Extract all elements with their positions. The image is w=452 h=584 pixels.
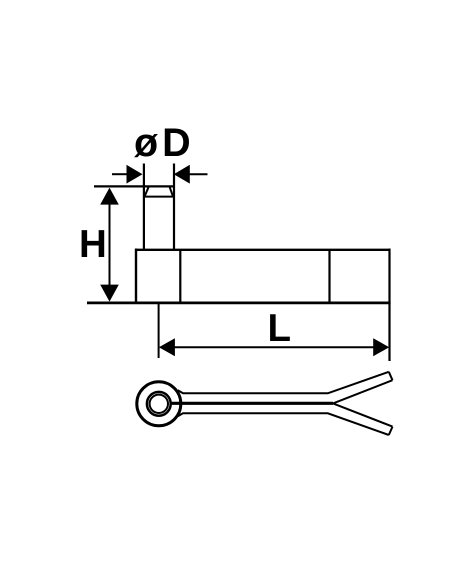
- cotter pin bottom leg lower edge: [178, 413, 389, 435]
- cotter pin top leg tip edge: [389, 372, 393, 380]
- body internal line left: [179, 250, 181, 303]
- pin chamfer bottom line: [143, 196, 175, 198]
- body internal line right: [328, 250, 330, 303]
- cotter pin eye outer circle: [137, 382, 181, 426]
- pin chamfer right diagonal: [170, 187, 173, 196]
- L left extension line: [158, 304, 160, 358]
- svg-text:øD: øD: [134, 121, 195, 165]
- pin chamfer left diagonal: [145, 187, 149, 196]
- cotter pin top leg upper edge: [178, 372, 389, 394]
- body right edge extended down as L extension line: [388, 249, 390, 362]
- svg-text:L: L: [268, 307, 292, 350]
- body top line: [135, 249, 390, 251]
- body bottom baseline: [87, 301, 391, 304]
- svg-text:H: H: [79, 223, 107, 266]
- cotter pin eye inner circle: [150, 395, 168, 413]
- dimension line L with arrowheads: [159, 338, 389, 356]
- cotter pin top leg lower edge: [333, 380, 393, 403]
- pin top line and H extension line: [94, 185, 175, 187]
- extension line / pin right edge: [173, 164, 175, 251]
- cotter pin bottom leg upper edge: [333, 403, 393, 426]
- body left edge: [135, 249, 137, 304]
- extension line / pin left edge: [143, 164, 145, 251]
- dimension arrow left (øD): [112, 165, 143, 184]
- dimension line H with arrowheads: [100, 188, 119, 302]
- cotter pin eye middle circle: [147, 392, 171, 416]
- cotter pin middle band (facing edges of legs): [172, 402, 334, 405]
- dimension arrow right (øD): [174, 165, 208, 184]
- cotter pin bottom leg tip edge: [389, 427, 393, 435]
